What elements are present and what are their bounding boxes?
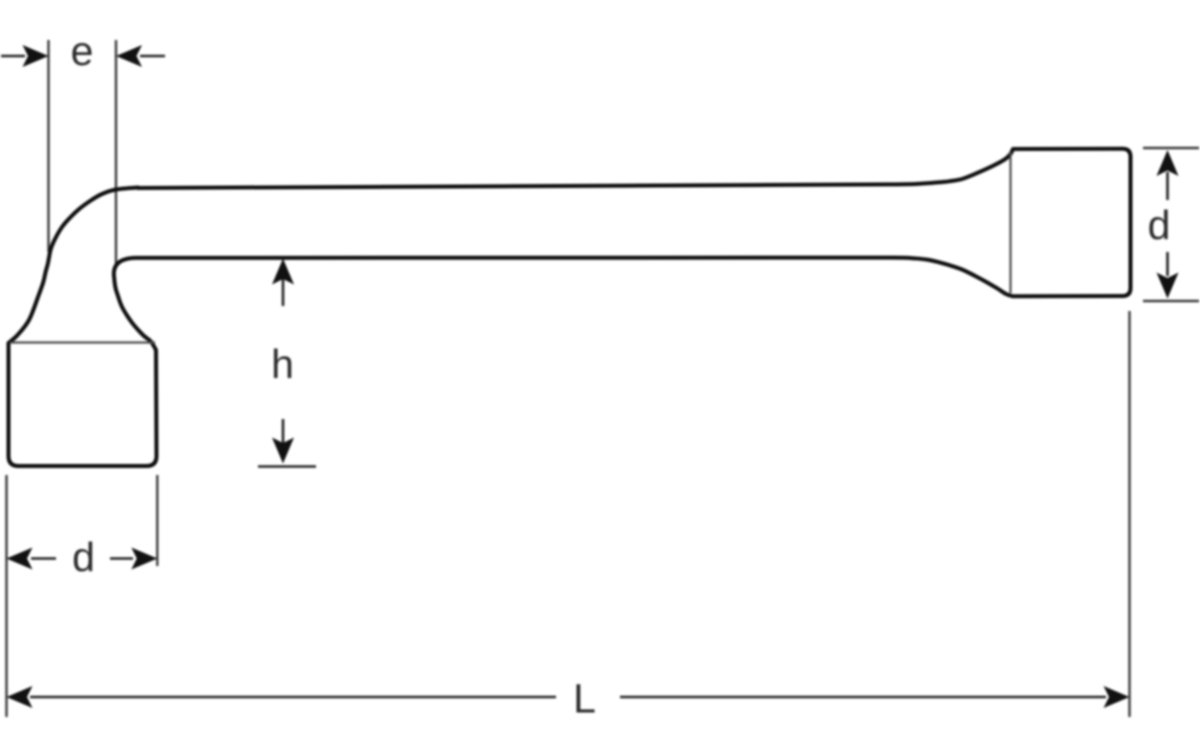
- arrow e-right: [116, 45, 165, 67]
- extension line L-right: [1128, 311, 1130, 717]
- arrow d-right up: [1157, 150, 1179, 200]
- svg-text:d: d: [72, 534, 95, 580]
- arrow e-left: [1, 45, 49, 67]
- shoulder line left head: [10, 341, 155, 343]
- svg-text:h: h: [271, 341, 294, 387]
- extension line e-right: [115, 40, 117, 264]
- arrow d-right down: [1157, 252, 1179, 299]
- shoulder line right head: [1009, 152, 1011, 293]
- arrow L-left: [7, 686, 33, 708]
- svg-text:e: e: [71, 28, 94, 74]
- extension line d-left (shared with L): [5, 475, 7, 717]
- extension line d-left right: [156, 475, 158, 566]
- L dimension line right segment: [620, 696, 1106, 699]
- dimension h arrow down: [272, 419, 294, 464]
- arrow L-right: [1104, 686, 1130, 708]
- h tick line: [258, 465, 316, 468]
- svg-text:d: d: [1148, 202, 1171, 248]
- extension line d-right top: [1143, 147, 1199, 149]
- arrow d-left-right: [110, 548, 157, 570]
- arrow d-left-left: [7, 548, 57, 570]
- svg-text:L: L: [573, 676, 596, 722]
- dimension h arrow up: [272, 259, 294, 307]
- extension line d-right bottom: [1143, 300, 1199, 302]
- wrench outline: [9, 149, 1131, 466]
- L dimension line left segment: [30, 696, 556, 699]
- extension line e-left: [47, 40, 49, 252]
